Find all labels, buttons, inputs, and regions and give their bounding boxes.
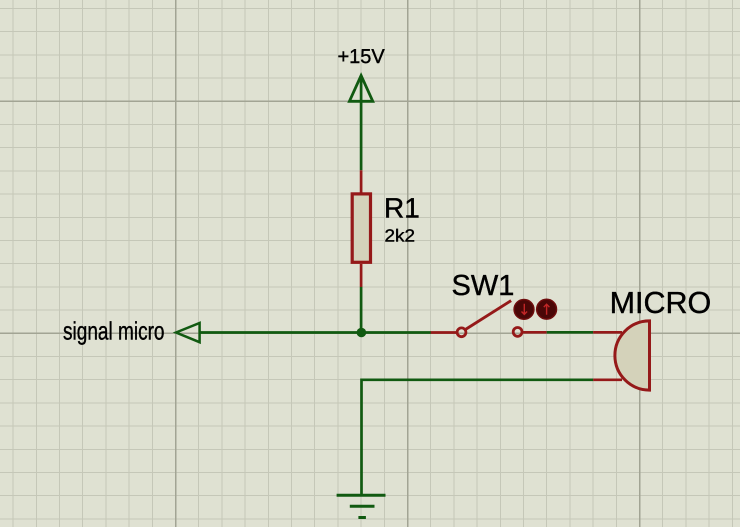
- contact SW1 right: [513, 328, 522, 337]
- wire resistor to junction: [360, 287, 363, 334]
- svg-text:2k2: 2k2: [385, 226, 416, 246]
- wire switch to micro: [547, 331, 593, 334]
- wire corner to ground: [360, 379, 363, 495]
- lever SW1: [465, 301, 511, 330]
- toggle button down: [514, 300, 534, 320]
- svg-text:+15V: +15V: [338, 46, 386, 68]
- pin R1 top: [360, 170, 363, 193]
- microphone MICRO: [593, 286, 711, 390]
- ground: [337, 495, 386, 517]
- toggle button up: [537, 299, 557, 319]
- svg-text:signal micro: signal micro: [63, 317, 165, 345]
- svg-text:SW1: SW1: [452, 270, 515, 302]
- wire power stem: [360, 77, 363, 171]
- pin SW1 right: [522, 331, 546, 334]
- wire micro bottom to corner: [362, 378, 594, 381]
- wire terminal to junction: [200, 331, 363, 334]
- wire junction to switch: [361, 331, 431, 334]
- body R1: [352, 194, 370, 262]
- resistor R1: [352, 170, 420, 287]
- body MICRO: [615, 321, 650, 390]
- power terminal +15V: [338, 46, 386, 170]
- svg-text:MICRO: MICRO: [610, 286, 712, 320]
- contact SW1 left: [457, 328, 466, 337]
- power arrow symbol: [349, 76, 372, 102]
- svg-text:R1: R1: [384, 193, 420, 224]
- pin SW1 left: [431, 331, 457, 334]
- pin R1 bottom: [360, 264, 363, 287]
- terminal signal micro: [63, 317, 200, 345]
- switch SW1: [431, 270, 557, 337]
- junction node: [357, 328, 367, 338]
- terminal arrow: [176, 323, 200, 342]
- pin MICRO top: [593, 331, 622, 334]
- pin MICRO bottom: [593, 378, 622, 381]
